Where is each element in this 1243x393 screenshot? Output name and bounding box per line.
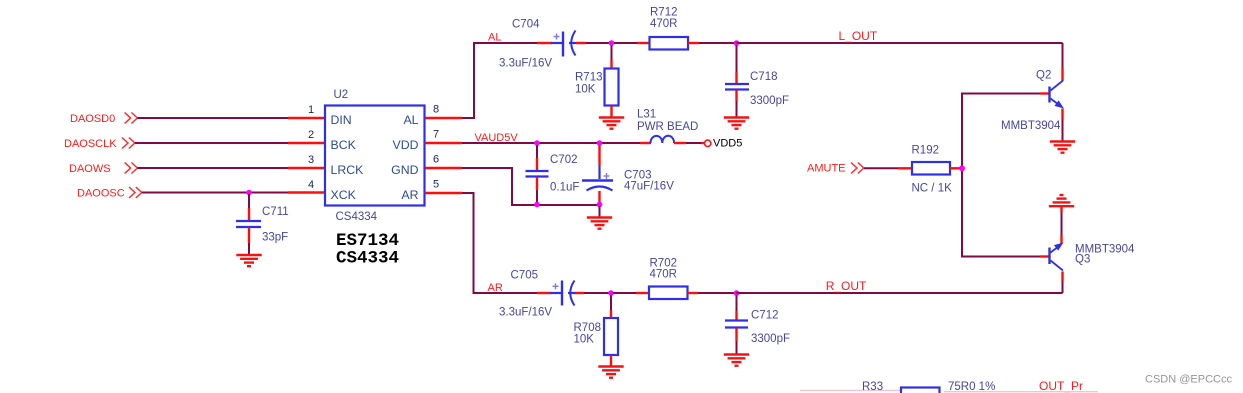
svg-text:R712: R712 bbox=[650, 7, 678, 19]
svg-text:DAOWS: DAOWS bbox=[69, 163, 111, 175]
svg-text:4: 4 bbox=[308, 179, 314, 191]
svg-text:C704: C704 bbox=[512, 19, 540, 31]
resistor R708 bbox=[604, 318, 618, 355]
power port VDD5 ring bbox=[705, 140, 711, 146]
svg-text:U2: U2 bbox=[334, 89, 349, 101]
wire AMUTE to R192 bbox=[864, 167, 912, 169]
pin names left bbox=[331, 113, 365, 202]
junction at C718 bbox=[734, 40, 740, 46]
svg-text:Q2: Q2 bbox=[1036, 70, 1051, 82]
svg-text:AL: AL bbox=[403, 113, 418, 127]
svg-text:CS4334: CS4334 bbox=[336, 211, 378, 223]
wire R708 branch bbox=[610, 295, 612, 318]
svg-text:8: 8 bbox=[433, 104, 439, 116]
wire C718 to ground bbox=[735, 90, 737, 118]
ground under Q2 bbox=[1050, 142, 1075, 153]
wire DAOOSC to pin4 bbox=[142, 192, 325, 194]
svg-text:10K: 10K bbox=[574, 334, 595, 346]
svg-text:2: 2 bbox=[308, 129, 314, 141]
ground under C718 bbox=[724, 118, 749, 129]
svg-text:3300pF: 3300pF bbox=[751, 333, 790, 345]
wire C704 out bbox=[576, 42, 609, 44]
capacitor C705 polarized bbox=[550, 281, 576, 306]
transistor Q3 bbox=[1050, 243, 1064, 270]
wire R712 to C718 junction bbox=[688, 42, 737, 44]
wire GND pin6 routing bbox=[462, 168, 600, 205]
wire C702 branch top bbox=[536, 145, 538, 171]
pin 6 stub bbox=[425, 167, 462, 169]
value label C711 33pF bbox=[262, 206, 289, 244]
resistor R33 bbox=[901, 388, 940, 393]
svg-text:R192: R192 bbox=[912, 145, 940, 157]
wire C703 branch top bbox=[598, 145, 600, 179]
node DAOWS bbox=[69, 163, 137, 176]
svg-text:PWR BEAD: PWR BEAD bbox=[637, 121, 698, 133]
wire R713 to ground bbox=[610, 106, 612, 118]
wire C702 branch bottom bbox=[536, 177, 538, 204]
svg-text:C712: C712 bbox=[751, 310, 779, 322]
node DAOSD0 bbox=[70, 113, 137, 126]
svg-text:DIN: DIN bbox=[331, 113, 352, 127]
plus sign C703 bbox=[604, 173, 610, 179]
op-amp U2 chip body bbox=[325, 106, 425, 206]
svg-text:AR: AR bbox=[401, 188, 418, 202]
svg-text:3: 3 bbox=[308, 154, 314, 166]
svg-text:C705: C705 bbox=[511, 270, 539, 282]
wire to Q2 base bbox=[962, 94, 1040, 169]
wire into R33 bbox=[800, 389, 901, 391]
svg-text:GND: GND bbox=[391, 163, 418, 177]
svg-text:0.1uF: 0.1uF bbox=[550, 182, 579, 194]
wire ground to Q3 emitter bbox=[1060, 206, 1062, 244]
ground under C711 bbox=[236, 255, 261, 266]
wire C718 branch bbox=[736, 45, 738, 83]
label C712 3300pF bbox=[751, 310, 790, 346]
svg-text:DAOSCLK: DAOSCLK bbox=[64, 138, 117, 150]
svg-text:R708: R708 bbox=[574, 322, 602, 334]
wire R_OUT rise to Q3 collector bbox=[1062, 272, 1064, 294]
svg-text:470R: 470R bbox=[650, 269, 678, 281]
wire into C704 bbox=[537, 42, 552, 44]
junction dot over base splitter bbox=[959, 165, 965, 171]
capacitor C712 bbox=[725, 321, 748, 328]
svg-text:DAOOSC: DAOOSC bbox=[77, 188, 125, 200]
junction at R708 bbox=[608, 290, 614, 296]
wire VDD rail bbox=[462, 142, 640, 144]
wire R702 to C712 junction bbox=[688, 292, 737, 294]
wire AR net drop bbox=[462, 193, 537, 293]
svg-text:6: 6 bbox=[433, 154, 439, 166]
resistor R702 bbox=[649, 287, 688, 300]
label R702 470R bbox=[650, 258, 678, 281]
junction at R713 bbox=[609, 40, 615, 46]
svg-text:MMBT3904: MMBT3904 bbox=[1001, 120, 1061, 132]
svg-text:L_OUT: L_OUT bbox=[839, 29, 878, 43]
pin 5 stub bbox=[425, 192, 462, 194]
wire to Q3 base bbox=[962, 168, 1040, 256]
svg-text:DAOSD0: DAOSD0 bbox=[70, 113, 115, 125]
junction on DAOOSC net bbox=[246, 190, 252, 196]
wire L_OUT drop to Q2 collector bbox=[1062, 43, 1064, 81]
resistor R192 bbox=[912, 162, 950, 175]
junction at C703 bbox=[597, 140, 603, 146]
svg-text:3.3uF/16V: 3.3uF/16V bbox=[499, 307, 552, 319]
label C703 47uF/16V bbox=[624, 169, 674, 192]
svg-text:R33: R33 bbox=[862, 381, 883, 393]
capacitor C711 bbox=[236, 221, 261, 227]
wire L31 to VDD5 bbox=[674, 142, 704, 144]
wire red Q2 base stub bbox=[1040, 92, 1049, 94]
wire C703 to bottom rail bbox=[598, 191, 600, 203]
label C718 3300pF bbox=[750, 71, 789, 107]
ground under R713 bbox=[599, 118, 624, 129]
wire C712 to ground bbox=[735, 328, 737, 355]
capacitor C704 polarized bbox=[551, 31, 577, 57]
capacitor C703 polarized bbox=[582, 181, 613, 191]
svg-text:VDD5: VDD5 bbox=[713, 138, 742, 150]
svg-text:OUT_Pr: OUT_Pr bbox=[1039, 379, 1083, 393]
wire AL net riser bbox=[462, 43, 537, 118]
label R708 10K bbox=[574, 322, 602, 346]
wire into C705 bbox=[537, 292, 551, 294]
wire R713 branch bbox=[611, 45, 613, 69]
pin numbers left 1 2 3 4 bbox=[308, 104, 314, 191]
label C702 0.1uF bbox=[550, 154, 579, 194]
ground under C712 bbox=[724, 355, 749, 366]
junction base splitter bbox=[959, 166, 965, 172]
resistor R713 bbox=[605, 69, 619, 106]
wire C711 to ground bbox=[248, 227, 250, 255]
wire red Q3 base stub bbox=[1040, 255, 1049, 257]
wire junction to R712 bbox=[614, 42, 650, 44]
wire into L31 bbox=[640, 142, 651, 144]
wire R_OUT rail bbox=[737, 292, 1063, 294]
wire C712 branch bbox=[736, 295, 738, 320]
wire to analog ground bbox=[599, 206, 601, 218]
svg-text:47uF/16V: 47uF/16V bbox=[624, 180, 674, 192]
svg-text:CS4334: CS4334 bbox=[336, 249, 399, 269]
wire C711 branch bbox=[248, 194, 250, 221]
svg-text:5: 5 bbox=[433, 179, 439, 191]
label R192 NC / 1K bbox=[912, 145, 953, 195]
svg-text:C711: C711 bbox=[262, 206, 289, 218]
wire R708 to ground bbox=[610, 355, 612, 367]
svg-text:C718: C718 bbox=[750, 71, 778, 83]
capacitor C702 bbox=[526, 171, 549, 177]
capacitor C718 bbox=[725, 84, 749, 90]
label L31 PWR BEAD bbox=[637, 109, 698, 134]
svg-text:XCK: XCK bbox=[331, 188, 357, 202]
svg-text:7: 7 bbox=[433, 129, 439, 141]
svg-text:BCK: BCK bbox=[331, 138, 357, 152]
svg-text:10K: 10K bbox=[575, 84, 596, 96]
plus sign C705 bbox=[553, 283, 559, 289]
junction C702 bottom bbox=[534, 202, 540, 208]
svg-text:33pF: 33pF bbox=[262, 232, 288, 244]
wire C705 out bbox=[575, 292, 609, 294]
pin 7 stub bbox=[425, 142, 462, 144]
svg-text:AMUTE: AMUTE bbox=[807, 163, 846, 175]
resistor R712 bbox=[650, 37, 689, 50]
wire DAOSD0 to pin1 bbox=[138, 117, 326, 119]
svg-text:1: 1 bbox=[308, 104, 314, 116]
ground under C703 bbox=[587, 218, 612, 229]
node DAOOSC bbox=[77, 187, 142, 200]
node DAOSCLK bbox=[64, 138, 135, 151]
label R713 10K bbox=[575, 72, 603, 96]
ground under R708 bbox=[598, 367, 623, 378]
svg-text:R713: R713 bbox=[575, 72, 603, 84]
svg-text:CSDN @EPCCcc: CSDN @EPCCcc bbox=[1145, 374, 1232, 386]
svg-text:AR: AR bbox=[488, 282, 503, 294]
svg-text:3300pF: 3300pF bbox=[750, 95, 789, 107]
svg-text:L31: L31 bbox=[637, 109, 656, 121]
transistor Q2 bbox=[1050, 81, 1064, 108]
wire right of R33 bbox=[944, 391, 1098, 393]
wire DAOWS to pin3 bbox=[138, 167, 326, 169]
svg-text:3.3uF/16V: 3.3uF/16V bbox=[499, 58, 552, 70]
svg-text:C702: C702 bbox=[550, 154, 578, 166]
pin 8 stub bbox=[425, 117, 462, 119]
plus sign C704 bbox=[554, 34, 560, 40]
pin numbers right 8 7 6 5 bbox=[433, 104, 439, 191]
svg-text:Q3: Q3 bbox=[1075, 254, 1090, 266]
junction at C712 bbox=[734, 290, 740, 296]
pin names right bbox=[391, 113, 418, 202]
wire junction to R702 bbox=[613, 292, 649, 294]
wire L_OUT rail bbox=[737, 42, 1063, 44]
svg-text:R_OUT: R_OUT bbox=[826, 279, 867, 293]
junction C703 bottom bbox=[597, 202, 603, 208]
wire R192 to junction bbox=[950, 167, 960, 169]
svg-text:470R: 470R bbox=[650, 18, 678, 30]
wire Q2 emitter to ground bbox=[1061, 109, 1063, 142]
svg-text:VDD: VDD bbox=[393, 138, 419, 152]
svg-text:LRCK: LRCK bbox=[331, 163, 365, 177]
inverted ground above Q3 bbox=[1049, 195, 1074, 206]
node AMUTE bbox=[807, 163, 864, 175]
svg-text:AL: AL bbox=[488, 32, 501, 44]
junction at C702 bbox=[534, 140, 540, 146]
label R712 470R bbox=[650, 7, 678, 31]
wire DAOSCLK to pin2 bbox=[135, 142, 325, 144]
svg-text:NC / 1K: NC / 1K bbox=[912, 183, 953, 195]
inductor L31 bbox=[651, 136, 675, 143]
